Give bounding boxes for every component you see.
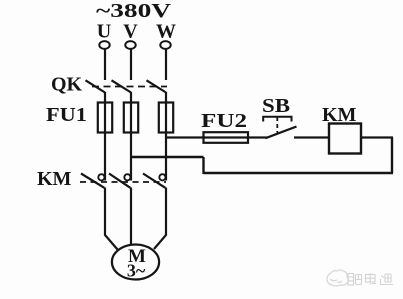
wire motor lead 2 [130, 188, 132, 245]
svg-text:FU1: FU1 [46, 104, 87, 126]
wire phase V upper [130, 49, 132, 80]
terminal U circle [99, 41, 109, 49]
wire right rail vertical [391, 138, 393, 174]
svg-text:QK: QK [51, 74, 83, 96]
pushbutton SB cap [263, 117, 291, 122]
terminal V circle [125, 41, 135, 49]
contactor KM contact 3 terminal circle [159, 174, 165, 180]
pushbutton SB blade [266, 127, 297, 139]
switch QK pole 1 blade [86, 80, 106, 92]
wire KM coil to right rail [361, 136, 393, 138]
terminal W circle [160, 41, 170, 49]
contactor coil KM box [329, 124, 361, 154]
svg-text:SB: SB [262, 95, 290, 117]
contactor KM coupling dashed link [80, 181, 166, 183]
svg-text:~380V: ~380V [96, 0, 172, 22]
wire phase W upper [165, 49, 167, 80]
wire phase U middle [104, 92, 106, 181]
wire phase U upper [104, 49, 106, 80]
fuse FU1 pole 2 [124, 103, 138, 133]
contactor KM contact 1 blade [81, 174, 104, 188]
wire motor lead 1 [105, 188, 118, 250]
svg-text:W: W [156, 21, 176, 43]
motor M circle [112, 245, 159, 280]
switch QK coupling dashed link [92, 86, 167, 88]
svg-text:KM: KM [37, 168, 72, 190]
switch QK pole 3 blade [147, 80, 167, 92]
switch QK pole 2 blade [112, 80, 132, 92]
wire phase W middle [165, 92, 167, 181]
fuse FU2 [204, 132, 249, 143]
svg-text:V: V [123, 21, 138, 43]
wire SB to KM coil [294, 136, 329, 138]
fuse FU1 pole 1 [98, 103, 112, 133]
wire control tap from phase W to SB [166, 136, 267, 138]
fuse FU1 pole 3 [159, 103, 173, 133]
watermark logo icon [327, 270, 349, 286]
wire motor lead 3 [154, 188, 166, 250]
svg-text:FU2: FU2 [201, 110, 247, 132]
wire control return to phase V [131, 156, 204, 158]
contactor KM contact 3 blade [143, 174, 165, 188]
pushbutton SB actuator dashed [276, 117, 278, 133]
wire control return jog vertical [202, 157, 204, 174]
wire control return bottom [204, 172, 394, 174]
contactor KM contact 2 terminal circle [124, 174, 130, 180]
svg-text:U: U [97, 21, 111, 43]
svg-text:3~: 3~ [127, 261, 146, 281]
contactor KM contact 1 terminal circle [98, 174, 104, 180]
contactor KM contact 2 blade [109, 174, 130, 188]
watermark text 配电通 [348, 273, 393, 285]
wire phase V middle [130, 92, 132, 181]
